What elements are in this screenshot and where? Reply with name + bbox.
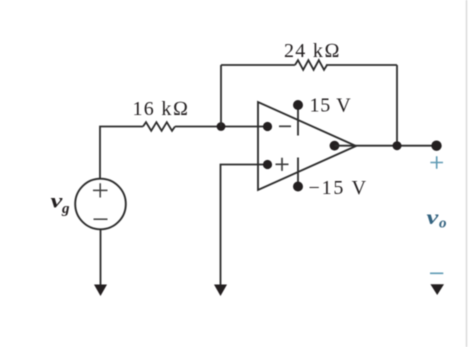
svg-text:−15 V: −15 V <box>309 177 368 199</box>
wire: output line <box>335 145 438 147</box>
wire: feedback left vertical <box>220 65 222 127</box>
negative supply lead <box>297 158 299 187</box>
op-amp inverting minus sign <box>279 125 291 127</box>
node: inverting input junction <box>217 122 226 131</box>
op-amp inverting input pin dot <box>263 122 272 131</box>
negative supply pin dot <box>293 182 303 192</box>
svg-text:v: v <box>427 207 440 229</box>
output terminal dot <box>431 141 441 151</box>
positive supply lead <box>297 105 299 136</box>
wire: feedback right vertical <box>396 65 398 146</box>
svg-text:16 kΩ: 16 kΩ <box>133 98 190 120</box>
wire: 16k resistor to inverting input <box>175 126 267 128</box>
source plus sign <box>93 183 108 197</box>
output reference arrow <box>430 284 444 295</box>
source minus sign <box>94 218 108 220</box>
resistor R1 16 kOhm <box>143 122 175 131</box>
op-amp non-inverting input pin dot <box>263 160 272 169</box>
ground arrow under non-inverting input <box>214 285 227 297</box>
wire: top rail right segment <box>326 64 397 66</box>
wire: source top lead up to 16k input row <box>100 127 143 179</box>
page edge rule <box>466 0 468 347</box>
wire: non-inverting input to ground drop <box>221 165 268 287</box>
node: feedback/output junction <box>393 141 402 150</box>
wire: top rail left segment <box>221 64 295 66</box>
resistor R2 24 kOhm <box>295 60 327 70</box>
ground arrow under source <box>94 285 107 297</box>
positive supply pin dot <box>293 100 303 110</box>
wire: source bottom lead <box>100 229 102 286</box>
op-amp output pin dot <box>330 141 340 151</box>
svg-text:15 V: 15 V <box>310 95 352 117</box>
svg-text:o: o <box>439 216 447 232</box>
voltage source vg <box>75 179 126 230</box>
op-amp U1 triangle <box>258 102 356 190</box>
output plus polarity mark <box>430 156 443 168</box>
op-amp non-inverting plus sign <box>276 158 289 171</box>
output minus polarity mark <box>430 272 443 274</box>
svg-text:g: g <box>61 201 70 217</box>
svg-text:24 kΩ: 24 kΩ <box>284 40 341 62</box>
